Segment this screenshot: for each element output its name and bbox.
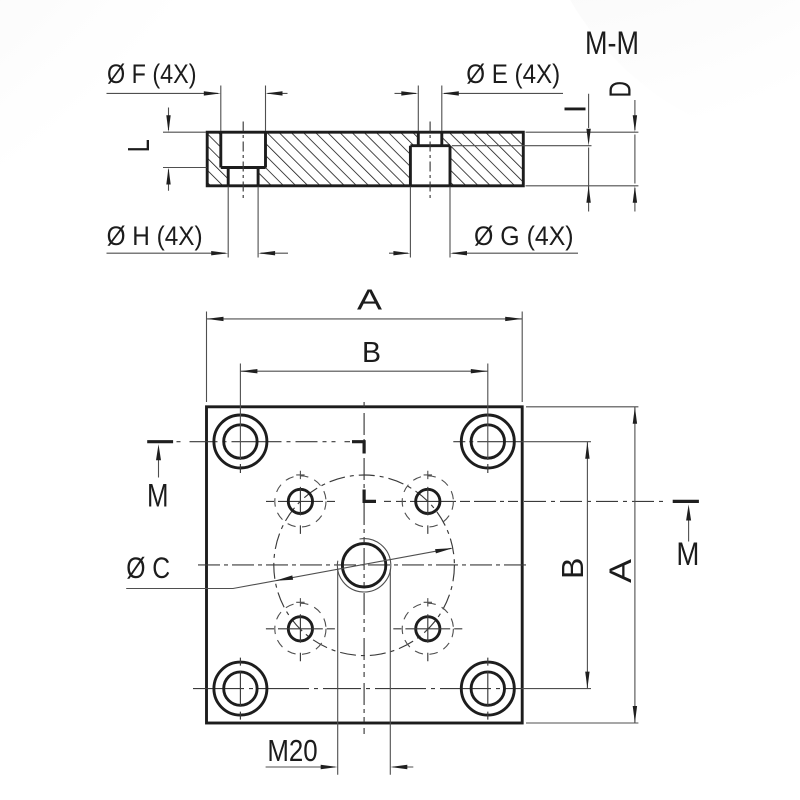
- dimension Ø F arrow left-pointing: [266, 91, 283, 95]
- small hole lower-right plus mark: [424, 598, 432, 606]
- I arrow down: [586, 129, 590, 146]
- svg-text:A: A: [357, 285, 383, 317]
- central hole M20 minor circle: [342, 544, 385, 587]
- plate bottom extension to right: [526, 185, 639, 187]
- section arrow left M: [158, 460, 160, 478]
- corner shading top-right: [530, 0, 800, 150]
- Ø C leader line: [126, 548, 451, 588]
- corner hole bottom-left counterbore: [214, 662, 267, 715]
- dimension Ø F arrow right-pointing: [204, 91, 221, 95]
- corner hole bottom-left bore: [224, 672, 257, 705]
- small hole upper-right plus mark: [424, 471, 432, 479]
- L dimension line: [168, 108, 170, 191]
- A right arrow down: [633, 706, 637, 723]
- section tick left M: [147, 440, 173, 443]
- dimension A top: extension lines: [207, 312, 523, 403]
- counterbore F outline: [221, 132, 266, 167]
- section cut jog corner upper: [352, 442, 364, 454]
- svg-text:M20: M20: [267, 733, 317, 768]
- counterbore G cutout (white): [410, 146, 450, 187]
- M20 arrow right-pointing: [321, 765, 338, 769]
- corner hole top-left bore: [224, 425, 257, 458]
- plate section outline: [207, 132, 523, 186]
- centerline of top-right corner hole: [453, 441, 522, 443]
- centerline through bottom corner holes: [193, 688, 522, 690]
- dimension Ø G (4X): leader line: [389, 252, 578, 254]
- small hole upper-left: [288, 489, 312, 513]
- svg-text:B: B: [555, 558, 590, 580]
- B right arrow up: [585, 442, 589, 459]
- small hole lower-left plus mark: [296, 598, 304, 606]
- D dimension line: [634, 100, 636, 212]
- corner hole bottom-right counterbore: [461, 662, 514, 715]
- counterbore F cutout (white): [221, 131, 266, 168]
- svg-text:Ø F (4X): Ø F (4X): [107, 59, 197, 89]
- B extension right bottom: [522, 688, 591, 690]
- small hole upper-left hidden counterbore: [275, 476, 326, 527]
- extension lines below plate: [228, 187, 450, 258]
- svg-text:L: L: [121, 139, 156, 152]
- small hole lower-left vertical centerline: [299, 614, 301, 661]
- I dimension reference line: [452, 145, 592, 147]
- small hole lower-left: [288, 617, 312, 641]
- A top arrow right: [505, 317, 522, 321]
- dimension B top line: [240, 370, 487, 372]
- hatched plate body: [207, 132, 523, 186]
- B top arrow right: [471, 369, 488, 373]
- small hole upper-right: [416, 489, 440, 513]
- corner hole bottom-right bore: [471, 672, 504, 705]
- I dimension line: [588, 94, 590, 212]
- L arrow up: [166, 168, 170, 185]
- M20 arrow left-pointing: [390, 765, 407, 769]
- central hole M20 thread major arc: [337, 539, 390, 592]
- corner shading top-left: [0, 0, 360, 330]
- dimension B top: extension lines: [240, 364, 487, 461]
- B extension right top: [522, 441, 591, 443]
- small hole upper-right vertical centerline: [427, 487, 429, 534]
- section tick right M: [673, 500, 699, 503]
- section cut jog corner lower: [364, 490, 376, 502]
- section line through upper-right small hole: [384, 500, 391, 502]
- svg-text:Ø G (4X): Ø G (4X): [474, 221, 574, 251]
- centerline upper-left small hole: [266, 500, 349, 502]
- Ø C arrow upper-right: [435, 548, 453, 553]
- svg-text:Ø E (4X): Ø E (4X): [466, 59, 560, 89]
- L arrow down: [166, 115, 170, 132]
- hole E cutout (white): [418, 131, 442, 146]
- small hole lower-right: [416, 617, 440, 641]
- svg-text:M: M: [676, 536, 699, 572]
- svg-text:Ø H (4X): Ø H (4X): [107, 221, 203, 251]
- through hole H outline: [228, 168, 258, 186]
- svg-text:A: A: [602, 559, 638, 583]
- dimension Ø G arrow left-pointing: [450, 251, 467, 255]
- dimension Ø H arrow right-pointing: [211, 251, 228, 255]
- corner hole top-right counterbore: [461, 415, 514, 468]
- dimension A right line: [634, 407, 636, 723]
- dimension Ø H (4X): leader line: [107, 252, 289, 254]
- A top arrow left: [207, 317, 224, 321]
- L dimension reference lines: [163, 132, 207, 167]
- through hole H cutout (white): [228, 168, 258, 188]
- small hole upper-left plus mark: [296, 471, 304, 479]
- corner hole top-left counterbore: [214, 415, 267, 468]
- bolt circle Ø C (dash-dot): [274, 475, 455, 656]
- B right arrow down: [585, 672, 589, 689]
- M20 extension lines down: [338, 570, 391, 775]
- dimension A top line: [207, 318, 523, 320]
- centerline left hole: [242, 122, 244, 200]
- D arrow up: [633, 186, 637, 203]
- small hole lower-left hidden counterbore: [275, 603, 326, 654]
- centerline right hole: [429, 122, 431, 200]
- hole E outline: [418, 132, 442, 146]
- dimension Ø G arrow right-pointing: [393, 251, 410, 255]
- svg-text:I: I: [558, 105, 593, 114]
- A right arrow up: [633, 407, 637, 424]
- section line through top corner holes: [177, 441, 351, 443]
- D arrow down: [633, 115, 637, 132]
- small hole lower-left horizontal centerline: [266, 628, 335, 630]
- dimension A right: extension lines: [526, 407, 638, 723]
- dimension Ø E arrow right-pointing: [401, 91, 418, 95]
- dimension Ø F (4X): leader line: [107, 92, 288, 94]
- small hole upper-right hidden counterbore: [402, 476, 453, 527]
- dimension B right line: [586, 442, 588, 689]
- small hole upper-left vertical centerline: [299, 487, 301, 534]
- svg-text:Ø C: Ø C: [126, 552, 170, 585]
- small hole lower-right horizontal centerline: [393, 628, 462, 630]
- counterbore G outline: [410, 146, 450, 186]
- vertical centerline of plate: [363, 402, 365, 734]
- dimension Ø E arrow left-pointing: [442, 91, 459, 95]
- small hole lower-right vertical centerline: [427, 614, 429, 661]
- small hole lower-right hidden counterbore: [402, 603, 453, 654]
- horizontal centerline of plate: [198, 564, 529, 566]
- top corner holes centerline dashes below: [240, 464, 487, 473]
- extension lines above plate: [221, 86, 442, 132]
- corner hole top-right bore: [471, 425, 504, 458]
- B top arrow left: [240, 369, 257, 373]
- section arrow right M: [688, 520, 690, 542]
- plate outline (square): [207, 407, 523, 723]
- I arrow up: [586, 186, 590, 203]
- bottom corner holes vertical centerlines: [240, 658, 487, 720]
- dimension Ø E (4X): leader line: [395, 92, 564, 94]
- svg-text:B: B: [362, 337, 381, 369]
- plate top extension to right: [526, 131, 639, 133]
- M20 dimension line: [266, 766, 414, 768]
- svg-text:M: M: [147, 478, 169, 514]
- svg-text:D: D: [602, 81, 637, 98]
- Ø C arrow lower-left: [275, 575, 293, 580]
- dimension Ø H arrow left-pointing: [258, 251, 275, 255]
- svg-text:M-M: M-M: [585, 25, 639, 61]
